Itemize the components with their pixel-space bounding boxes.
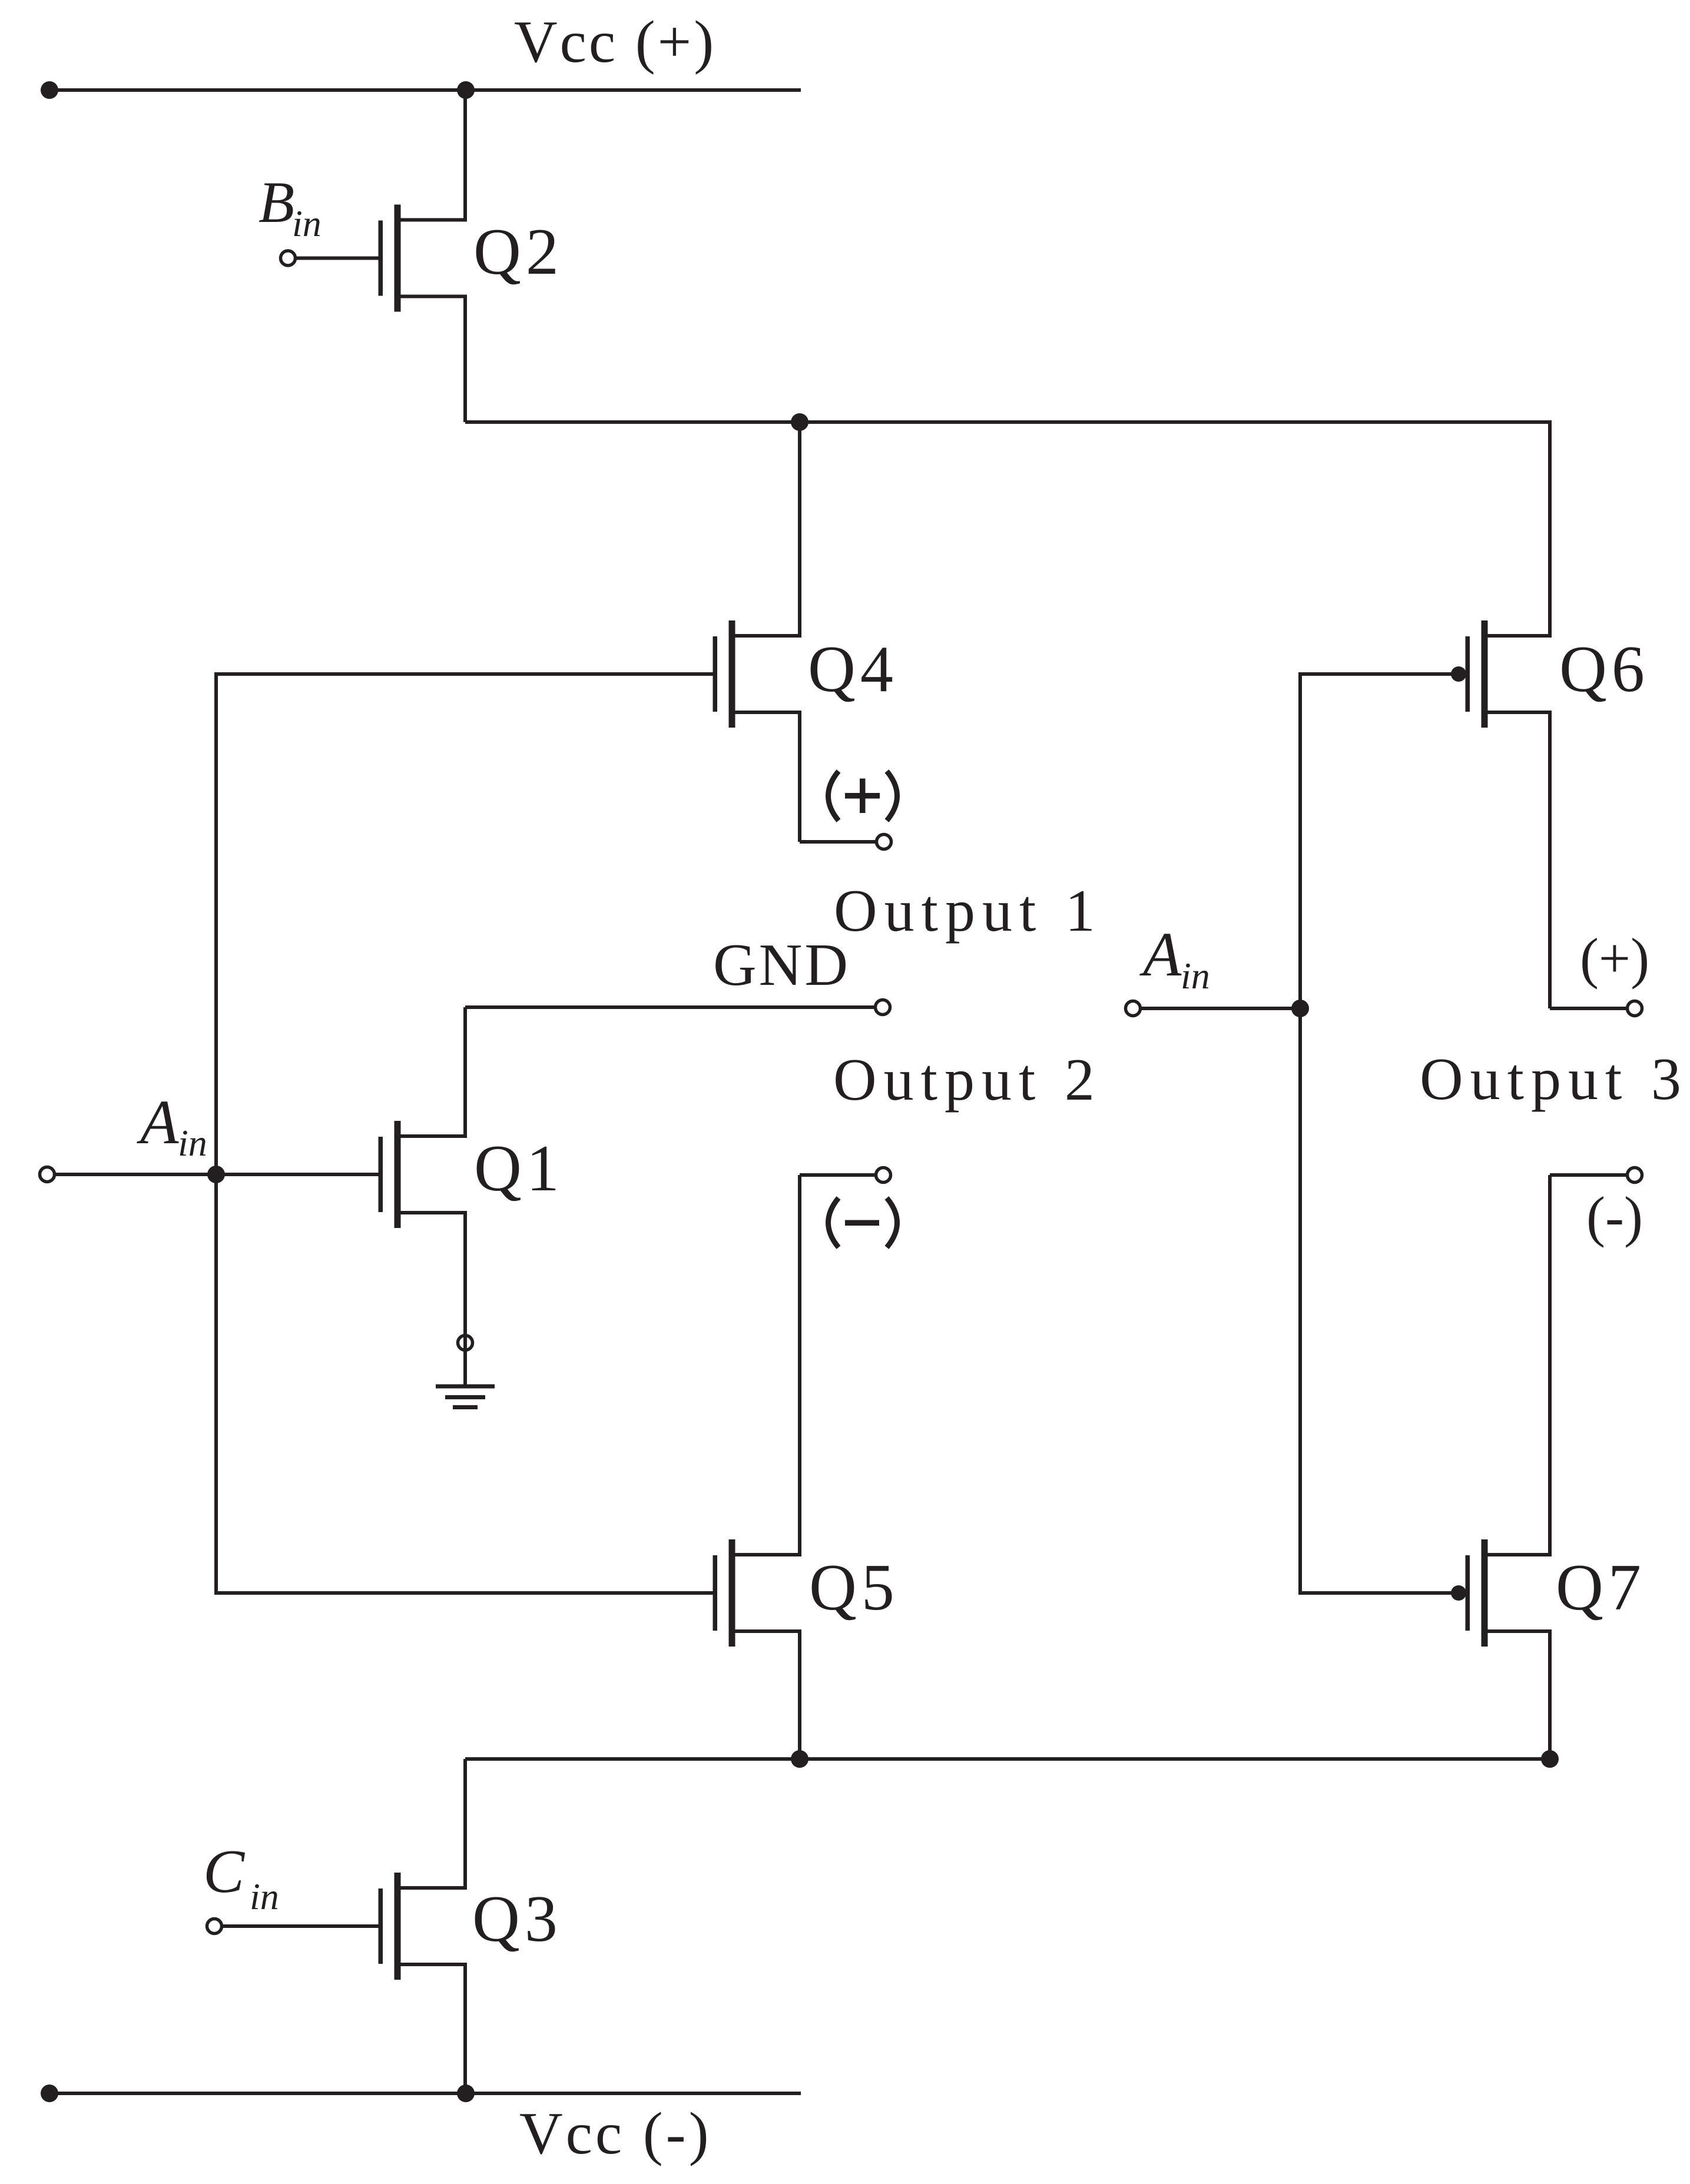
- svg-text:Output 3: Output 3: [1420, 1046, 1688, 1113]
- wire Q4 source down: [798, 712, 801, 842]
- wire Ain input to Q1 gate: [56, 1173, 379, 1176]
- wire Output2 terminal to Q5 drain wire: [800, 1173, 875, 1177]
- wire GND horizontal: [465, 1005, 874, 1009]
- wire Ain bus to Q5 gate: [214, 1591, 713, 1595]
- svg-text:Q6: Q6: [1559, 633, 1649, 706]
- svg-text:Q1: Q1: [474, 1132, 564, 1205]
- wire Q1 source down to ground: [463, 1213, 467, 1385]
- svg-text:Q7: Q7: [1556, 1551, 1646, 1624]
- wire Q4 source to Output1 terminal: [800, 840, 875, 844]
- label (+) Output 1: [829, 771, 897, 821]
- label Output 1: [834, 878, 1102, 944]
- wire Ain bus left vertical: [214, 674, 218, 1593]
- transistor Q7: [1466, 1539, 1552, 1647]
- wire bottom node down to Q3 drain: [463, 1759, 467, 1888]
- junction Ain bus on Q1 gate wire: [207, 1166, 225, 1183]
- wire Q2 source down: [463, 296, 467, 422]
- svg-text:Output 1: Output 1: [834, 878, 1102, 944]
- wire Bin to Q2 gate: [297, 257, 379, 260]
- junction bottom node at Q7 source: [1541, 1750, 1559, 1768]
- terminal Bin input: [281, 251, 296, 265]
- label Q3: [472, 1883, 562, 1956]
- terminal Output 3 negative: [1628, 1168, 1642, 1183]
- wire Ain bus to Q4 gate: [214, 672, 713, 676]
- label Q1: [474, 1132, 564, 1205]
- wire Ain right to bus: [1142, 1007, 1300, 1010]
- svg-text:Q2: Q2: [473, 215, 564, 288]
- terminal Output 1 positive: [877, 835, 892, 849]
- transistor Q2: [379, 205, 468, 312]
- wire Vcc(+) rail: [49, 88, 801, 92]
- terminal ground reference circle: [458, 1336, 473, 1350]
- wire Q3 source down to Vcc(-) rail: [463, 1964, 467, 2093]
- label Q6: [1559, 633, 1649, 706]
- wire node-A down to Q4 drain: [798, 422, 801, 636]
- transistor Q6: [1466, 620, 1552, 728]
- wire node-A down to Q6 drain: [1548, 420, 1552, 636]
- label Output 3: [1420, 1046, 1688, 1113]
- label Q4: [808, 633, 898, 706]
- node Vcc(-) rail left endpoint: [41, 2085, 58, 2102]
- wire Ain bus right vertical: [1298, 674, 1302, 1593]
- label GND: [713, 932, 850, 998]
- wire Q7 source down: [1548, 1631, 1552, 1759]
- wire Q5 source down: [798, 1631, 801, 1759]
- junction Ain right bus: [1291, 1000, 1309, 1017]
- wire Vcc(-) rail: [49, 2092, 801, 2095]
- svg-text:Q3: Q3: [472, 1883, 562, 1956]
- svg-text:GND: GND: [713, 932, 850, 998]
- label Vcc (-): [519, 2100, 712, 2167]
- svg-text:Output 2: Output 2: [833, 1047, 1102, 1113]
- label Bin: [259, 170, 322, 244]
- wire Q6 source to Output3 (+) terminal: [1550, 1007, 1626, 1010]
- label Ain left: [137, 1088, 207, 1164]
- wire Ain bus to Q7 gate: [1298, 1591, 1453, 1595]
- wire Q6 source down: [1548, 712, 1552, 1008]
- svg-text:Q4: Q4: [808, 633, 898, 706]
- svg-text:Vcc (+): Vcc (+): [514, 9, 716, 75]
- ground symbol: [436, 1385, 495, 1410]
- label Q2: [473, 215, 564, 288]
- terminal Output 2 top: [876, 1168, 891, 1183]
- wire Q2 drain to Vcc(+) rail: [463, 88, 467, 220]
- terminal GND / Output 1 negative: [876, 1000, 890, 1015]
- label Output 2: [833, 1047, 1102, 1113]
- junction Vcc(-) to Q3 source: [457, 2085, 475, 2102]
- label Vcc (+): [514, 9, 716, 75]
- svg-text:Q5: Q5: [809, 1551, 899, 1624]
- wire Q7 drain vertical: [1548, 1175, 1552, 1555]
- transistor Q4: [713, 620, 802, 728]
- label Q7: [1556, 1551, 1646, 1624]
- terminal Ain input left: [40, 1167, 55, 1182]
- svg-text:A: A: [137, 1088, 179, 1157]
- node Vcc(+) rail left endpoint: [41, 81, 58, 99]
- label Cin: [203, 1837, 279, 1917]
- wire Q5 drain vertical: [798, 1175, 801, 1555]
- label Q5: [809, 1551, 899, 1624]
- transistor Q1: [379, 1121, 468, 1228]
- label (-) Output 3: [1586, 1185, 1643, 1248]
- transistor Q5: [713, 1539, 802, 1647]
- wire bottom node horizontal (Q3 drain to Q7 source): [465, 1757, 1550, 1761]
- svg-text:A: A: [1139, 920, 1182, 990]
- svg-text:(+): (+): [1580, 927, 1649, 990]
- label Ain right: [1139, 920, 1210, 997]
- wire Cin to Q3 gate: [223, 1924, 379, 1928]
- wire Q1 drain up to GND: [463, 1007, 467, 1136]
- svg-text:B: B: [259, 170, 294, 235]
- wire Ain bus to Q6 gate: [1298, 672, 1453, 676]
- label (&#8722;) Output 2: [829, 1198, 897, 1247]
- node Q7 gate dot: [1451, 1585, 1466, 1601]
- junction bottom node at Q5 source: [791, 1750, 808, 1768]
- terminal Cin input: [207, 1919, 222, 1934]
- wire node-A horizontal (Q2 source to Q6 drain): [465, 420, 1550, 424]
- terminal Ain input right: [1126, 1001, 1141, 1016]
- wire Output3 (-) terminal to Q7 drain wire: [1550, 1173, 1626, 1177]
- junction Vcc(+) to Q2 drain: [457, 81, 475, 99]
- svg-text:Vcc (-): Vcc (-): [519, 2100, 712, 2167]
- svg-text:in: in: [250, 1876, 279, 1917]
- junction node-A to Q4 drain: [791, 413, 808, 431]
- transistor Q3: [379, 1873, 468, 1980]
- node Q6 gate dot: [1451, 666, 1466, 682]
- svg-text:C: C: [203, 1837, 246, 1906]
- terminal Output 3 positive: [1628, 1001, 1642, 1016]
- label (+) Output 3: [1580, 927, 1649, 990]
- svg-text:in: in: [1181, 955, 1210, 997]
- svg-text:in: in: [178, 1122, 207, 1164]
- svg-text:(-): (-): [1586, 1185, 1643, 1248]
- svg-text:in: in: [292, 203, 322, 244]
